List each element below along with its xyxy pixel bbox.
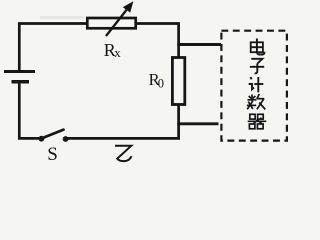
svg-text:0: 0 [158, 77, 164, 91]
char 数 [247, 94, 265, 109]
dashed box: electronic counter [221, 31, 287, 141]
char 器 [248, 114, 267, 129]
char 子 [250, 59, 264, 73]
resistor R0 box [172, 58, 184, 105]
battery short plate [12, 80, 30, 84]
wire: bottom-left + battery lower lead [19, 82, 41, 138]
switch S: left contact dot [39, 136, 45, 142]
wire: below R0 down to bottom [177, 104, 180, 140]
Rx arrow shaft [106, 7, 129, 36]
resistor Rx box [87, 18, 135, 28]
char 计 [249, 77, 264, 92]
wire: link to counter (top) [177, 43, 221, 46]
wire: left vertical + top horizontal to Rx [19, 24, 87, 71]
switch S: right contact dot [63, 136, 69, 142]
char 电 [251, 39, 265, 55]
battery long plate [4, 70, 35, 73]
wire: link to counter (bottom) [177, 122, 218, 125]
wire: bottom horizontal (right of switch) [66, 137, 180, 140]
label 乙 (hand drawn) [115, 146, 132, 161]
svg-text:S: S [47, 144, 58, 165]
svg-text:x: x [114, 45, 121, 60]
switch S: lever [42, 130, 64, 139]
wire: top right from Rx to corner, down to R0 [136, 24, 179, 58]
Rx arrowhead [123, 1, 134, 12]
